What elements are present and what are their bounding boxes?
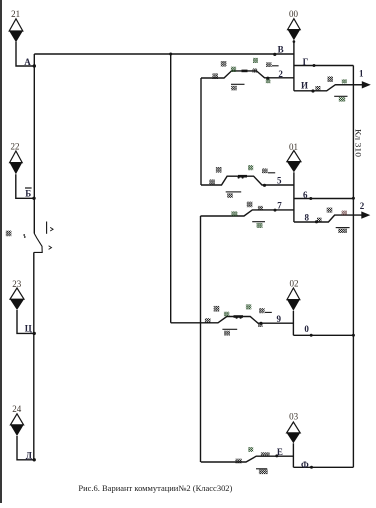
jack arrow mark lower [49,246,52,250]
output arrow 1 head and line [335,81,371,219]
contact dot row I [311,89,314,92]
dash below row E [256,468,267,470]
svg-text:В: В [278,45,284,55]
wire: node A bus upper segment [33,54,35,234]
wire: row 6 [294,198,354,200]
overline of B(bar) [25,187,32,189]
wire: stub from connector 21 [16,42,34,66]
switch row 9 thick segment [234,315,244,318]
connector 21 [9,19,23,43]
node dot row 0 right [352,334,355,337]
svg-text:И: И [301,81,308,91]
svg-text:Рис.6. Вариант коммутации№2 (К: Рис.6. Вариант коммутации№2 (Класс302) [78,484,232,493]
svg-text:2: 2 [278,69,283,79]
wire: stub from connector 24 [17,436,34,460]
svg-text:02: 02 [290,279,299,289]
contact dot row E [275,454,278,457]
marks row 5 [209,179,215,184]
node dot B line / middle bus [169,53,172,56]
svg-text:Б: Б [25,188,31,198]
connector 03 [287,422,301,443]
node dot row 6 left [309,197,312,200]
s mark dots near jack [23,234,25,236]
svg-text:Г: Г [303,57,309,67]
svg-text:2: 2 [360,201,365,211]
svg-text:Кл 310: Кл 310 [353,129,362,157]
contact dot row 2 [266,77,269,80]
jack arrow mark upper [50,227,53,231]
wire: center vertical from connector 01 [293,172,295,222]
dash below row 8 [336,227,350,229]
svg-text:00: 00 [289,9,299,19]
wire: stub from connector 22 [16,174,35,198]
marks row 7 [231,211,237,216]
svg-text:22: 22 [11,141,20,151]
wire: left bus lower segment [33,252,35,459]
dash-right row 9 upper [265,311,272,313]
wire: center vertical from connector 03 [292,443,294,467]
jack switch on left bus [34,234,42,253]
page left border [0,0,2,503]
connector 23 [10,288,24,310]
dash below row 7 [252,221,265,223]
svg-text:Д: Д [26,450,33,460]
svg-text:01: 01 [289,142,298,152]
dots on row 5 segment [238,176,240,178]
switch row 5 [201,176,294,185]
switch row I wire [294,85,363,91]
output arrow 1 [362,84,364,86]
switch row 8 wire [294,215,362,222]
connector 00 [288,19,301,41]
connector 01 [287,151,301,173]
dash below row 5 [226,191,242,193]
marks row I [315,86,320,90]
switch row E [201,456,294,462]
output arrow 2 head [361,211,370,218]
node dot row F [310,466,313,469]
svg-text:Е: Е [277,447,283,457]
dash below row 9 [222,328,237,330]
node dot C [33,332,36,335]
dash below row 2 [231,83,245,85]
svg-text:0: 0 [304,324,309,334]
node dot D [33,458,36,461]
svg-text:6: 6 [303,190,308,200]
switch row 2 thick segment [242,70,248,73]
contact dot row 9 [259,322,262,325]
jack tick mark [46,222,48,234]
svg-text:5: 5 [277,175,282,185]
svg-text:03: 03 [289,412,299,422]
svg-text:8: 8 [305,212,310,222]
contact dot row 8 [315,220,318,223]
svg-text:23: 23 [12,279,22,289]
svg-text:21: 21 [11,9,20,19]
wire: vertical joining rows 7,9,E [200,216,202,462]
switch row 5 thick segment [238,175,247,178]
dash marks (spare contacts) [222,66,349,469]
connector 02 [287,288,300,311]
node dot B line at 275 [273,53,276,56]
wire: center vertical from connector 02 [292,311,294,336]
dash below row I [334,95,347,97]
node dot at connector 00 tip [293,40,296,43]
node dot B(bar) [32,197,35,200]
svg-text:1: 1 [359,69,364,79]
wire: middle bus [170,54,172,323]
svg-text:А: А [24,57,31,67]
contact dot row 7 [274,209,277,212]
node dot row 6 right [352,197,355,200]
dots on row 9 segment [236,317,238,319]
marks row E [235,459,241,464]
wire: center vertical from connector 00 [293,40,295,91]
contact dot row 5 [263,184,266,187]
wire: row F bottom [293,466,353,468]
svg-text:Ц: Ц [25,324,32,334]
marks row 2 [212,73,218,79]
node dot row 0 left [310,334,313,337]
marks row 9 [205,318,211,323]
wire: vertical joining rows 2 and 5 [200,78,202,185]
svg-text:9: 9 [276,314,281,324]
svg-text:Ф: Ф [301,460,309,470]
dash-right row 2 upper [272,65,279,67]
mark near jack [6,231,12,237]
wire: right bus Kl310 [352,66,354,468]
connector 24 [10,414,23,436]
wire: row 0 [293,334,353,336]
node dot A [33,64,36,67]
switch row 9 [171,317,294,324]
wire: stub from connector 23 [17,310,34,333]
svg-text:7: 7 [277,201,282,211]
svg-text:24: 24 [12,404,22,414]
connector 22 [10,151,23,174]
checker hatch marks [6,58,347,474]
switch row 2 [201,71,294,78]
wire: row G [294,65,354,67]
switch row 7 [201,210,294,216]
node dot on G row [313,64,316,67]
dash-right row 5 upper [268,172,275,174]
marks row 8 [327,208,333,213]
wire: top horizontal B line [34,53,294,55]
